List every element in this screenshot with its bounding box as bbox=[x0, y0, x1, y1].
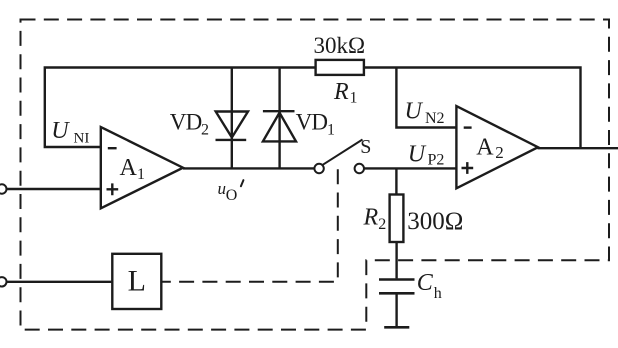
dashed inner boundary (sampling control) bbox=[162, 169, 338, 282]
svg-text:R: R bbox=[333, 79, 349, 105]
capacitor Ch bbox=[379, 270, 442, 302]
wire: VD1 branch vertical bbox=[278, 68, 280, 169]
wire: tap from rail down to A2 inverting input (node UN2) bbox=[396, 68, 456, 128]
wire: A1 noninverting input from left terminal bbox=[7, 188, 101, 190]
svg-text:A: A bbox=[476, 134, 494, 160]
svg-text:C: C bbox=[417, 270, 434, 296]
wire: top feedback rail from A1 inverting input up, across through R1, down to A2 output bbox=[45, 68, 581, 149]
wire: A2 output to right edge bbox=[538, 147, 618, 149]
svg-text:R: R bbox=[363, 205, 379, 231]
svg-text:U: U bbox=[405, 99, 424, 125]
wire: L box input from lower left terminal bbox=[7, 281, 113, 283]
svg-text:N2: N2 bbox=[425, 110, 445, 127]
svg-text:300Ω: 300Ω bbox=[407, 208, 463, 235]
switch S bbox=[314, 136, 371, 173]
op-amp A1 bbox=[101, 127, 183, 208]
wire: switch right contact to A2 noninverting input (node UP2) bbox=[364, 167, 456, 169]
svg-text:U: U bbox=[51, 118, 70, 144]
wire: R2 bottom to capacitor bbox=[395, 242, 397, 278]
svg-text:1: 1 bbox=[137, 166, 145, 183]
svg-text:NI: NI bbox=[74, 131, 90, 147]
svg-text:U: U bbox=[408, 142, 427, 168]
svg-text:h: h bbox=[434, 285, 442, 302]
svg-text:2: 2 bbox=[201, 121, 209, 138]
resistor R1 bbox=[314, 33, 366, 107]
wire: A1 output row to switch left contact bbox=[183, 167, 314, 169]
op-amp A2 bbox=[456, 106, 538, 188]
svg-text:2: 2 bbox=[495, 143, 504, 162]
wire: capacitor bottom lead bbox=[395, 294, 397, 327]
svg-text:1: 1 bbox=[327, 121, 335, 138]
svg-text:A: A bbox=[120, 155, 138, 181]
svg-text:1: 1 bbox=[350, 90, 358, 107]
diode VD2 bbox=[170, 110, 248, 140]
wire: VD2 branch vertical bbox=[231, 68, 233, 169]
svg-text:S: S bbox=[360, 136, 371, 158]
resistor R2 bbox=[363, 195, 464, 243]
svg-text:O: O bbox=[226, 187, 238, 204]
terminal (lower input) bbox=[0, 277, 6, 286]
svg-text:P2: P2 bbox=[428, 151, 445, 168]
svg-text:30kΩ: 30kΩ bbox=[314, 33, 366, 58]
svg-text:L: L bbox=[128, 265, 146, 298]
terminal (upper input) bbox=[0, 184, 6, 193]
svg-text:2: 2 bbox=[378, 216, 386, 233]
wire: R2 top connection bbox=[395, 168, 397, 194]
svg-text:VD: VD bbox=[170, 110, 202, 135]
diode VD1 bbox=[263, 110, 335, 142]
block L bbox=[112, 254, 161, 309]
terminal bar at capacitor bottom bbox=[384, 326, 409, 329]
svg-text:VD: VD bbox=[296, 110, 328, 135]
